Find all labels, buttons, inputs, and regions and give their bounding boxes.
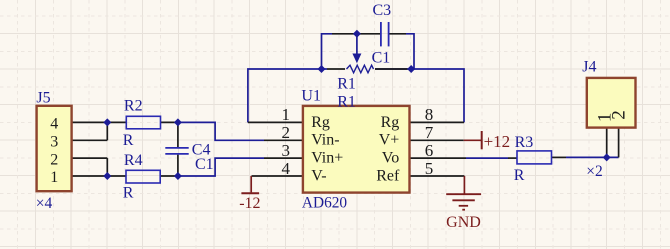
svg-text:R: R	[123, 184, 134, 201]
svg-text:J4: J4	[582, 58, 596, 75]
svg-text:7: 7	[425, 123, 434, 142]
svg-text:Vin-: Vin-	[311, 132, 339, 149]
svg-text:2: 2	[608, 110, 629, 120]
svg-text:R1: R1	[337, 93, 356, 110]
svg-text:-12: -12	[239, 195, 260, 212]
svg-text:5: 5	[425, 159, 434, 178]
svg-text:+12: +12	[484, 132, 511, 151]
svg-text:R2: R2	[124, 97, 143, 114]
svg-text:J5: J5	[36, 90, 50, 107]
svg-text:U1: U1	[301, 88, 321, 105]
svg-text:×4: ×4	[36, 195, 53, 212]
svg-text:Vin+: Vin+	[311, 150, 343, 167]
svg-text:2: 2	[50, 151, 58, 168]
svg-text:3: 3	[50, 134, 58, 151]
svg-text:Vo: Vo	[382, 150, 400, 167]
svg-text:C1: C1	[372, 50, 391, 67]
svg-text:GND: GND	[446, 214, 481, 231]
svg-text:V-: V-	[311, 167, 326, 184]
svg-text:R1: R1	[337, 76, 356, 93]
svg-text:Ref: Ref	[376, 167, 400, 184]
svg-text:4: 4	[282, 159, 291, 178]
svg-text:Rg: Rg	[311, 114, 330, 131]
svg-text:C3: C3	[373, 2, 392, 19]
svg-text:2: 2	[282, 123, 291, 142]
svg-text:R3: R3	[515, 134, 534, 151]
svg-text:8: 8	[425, 105, 434, 124]
svg-text:1: 1	[50, 169, 58, 186]
svg-text:C1: C1	[195, 156, 214, 173]
svg-text:R: R	[514, 167, 525, 184]
svg-text:V+: V+	[379, 132, 400, 149]
svg-text:R: R	[123, 132, 134, 149]
svg-text:3: 3	[282, 141, 291, 160]
svg-text:R4: R4	[124, 152, 143, 169]
svg-text:4: 4	[50, 116, 58, 133]
svg-text:6: 6	[425, 141, 434, 160]
svg-text:Rg: Rg	[381, 114, 400, 131]
svg-text:AD620: AD620	[302, 195, 347, 212]
svg-text:×2: ×2	[586, 163, 603, 180]
svg-text:1: 1	[282, 105, 291, 124]
